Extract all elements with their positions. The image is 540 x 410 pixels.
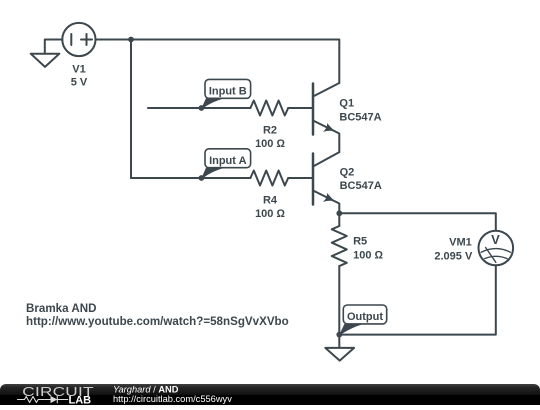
svg-text:http://circuitlab.com/c556wyv: http://circuitlab.com/c556wyv [113, 394, 232, 404]
svg-text:R2: R2 [263, 125, 277, 137]
svg-text:Bramka AND: Bramka AND [26, 302, 96, 315]
svg-text:BC547A: BC547A [339, 112, 381, 124]
wire VM1 bottom to output node [339, 265, 496, 334]
svg-text:Yarghard / AND: Yarghard / AND [113, 384, 179, 394]
svg-text:Input B: Input B [209, 86, 247, 98]
transistor Q2 [313, 152, 339, 213]
resistor R2 [250, 101, 288, 116]
ground (output) [325, 348, 354, 361]
svg-text:VM1: VM1 [449, 237, 472, 249]
svg-text:R5: R5 [353, 235, 367, 247]
label V1 value [71, 64, 88, 89]
annotation Bramka AND [26, 302, 289, 328]
svg-text:BC547A: BC547A [340, 180, 382, 192]
wire top rail [96, 40, 340, 84]
flag Input A [201, 149, 250, 179]
transistor Q1 [313, 83, 339, 152]
wire R2 to Q1 base [288, 107, 313, 109]
resistor R4 [250, 171, 288, 186]
footer bar [0, 384, 540, 405]
label R4 value [255, 194, 285, 220]
wire junction to VM1 [339, 213, 496, 231]
resistor R5 [332, 213, 347, 334]
label R5 value [353, 235, 383, 261]
svg-text:LAB: LAB [69, 394, 92, 405]
node Input B [199, 105, 205, 111]
footer logo resistor-diode glyph [18, 396, 68, 403]
svg-text:Q2: Q2 [340, 167, 355, 179]
svg-text:Q1: Q1 [339, 98, 354, 110]
node top-rail junction [128, 37, 134, 43]
label VM1 value [434, 237, 473, 263]
node emitter junction [336, 210, 342, 216]
label R2 value [255, 125, 285, 150]
node Output [336, 332, 342, 338]
voltmeter VM1 [479, 231, 514, 266]
ground (V1) [31, 54, 60, 67]
label Q1 BC547A [339, 98, 381, 124]
svg-text:100 Ω: 100 Ω [255, 138, 285, 150]
voltage source V1 [62, 23, 95, 56]
wire left vertical [130, 40, 132, 179]
svg-text:Output: Output [347, 311, 383, 323]
flag Output [339, 305, 386, 335]
flag Input B [201, 79, 250, 108]
svg-text:100 Ω: 100 Ω [353, 249, 383, 261]
wire V1 to ground [45, 40, 63, 54]
svg-text:http://www.youtube.com/watch?=: http://www.youtube.com/watch?=58nSgVvXVb… [26, 315, 289, 328]
svg-text:V1: V1 [72, 64, 85, 76]
svg-text:Input A: Input A [209, 155, 247, 167]
svg-text:2.095 V: 2.095 V [434, 250, 473, 262]
footer text credits [113, 384, 232, 404]
wire R4 to Q2 base [288, 177, 313, 179]
node Input A [199, 175, 205, 181]
wire output to ground [338, 335, 340, 348]
svg-text:5 V: 5 V [71, 77, 88, 89]
label Q2 BC547A [340, 167, 382, 193]
svg-text:V: V [491, 232, 500, 247]
svg-text:R4: R4 [263, 194, 278, 206]
wire Input B horizontal [148, 107, 250, 109]
wire Input A horizontal [131, 177, 250, 179]
svg-text:100 Ω: 100 Ω [255, 208, 285, 220]
